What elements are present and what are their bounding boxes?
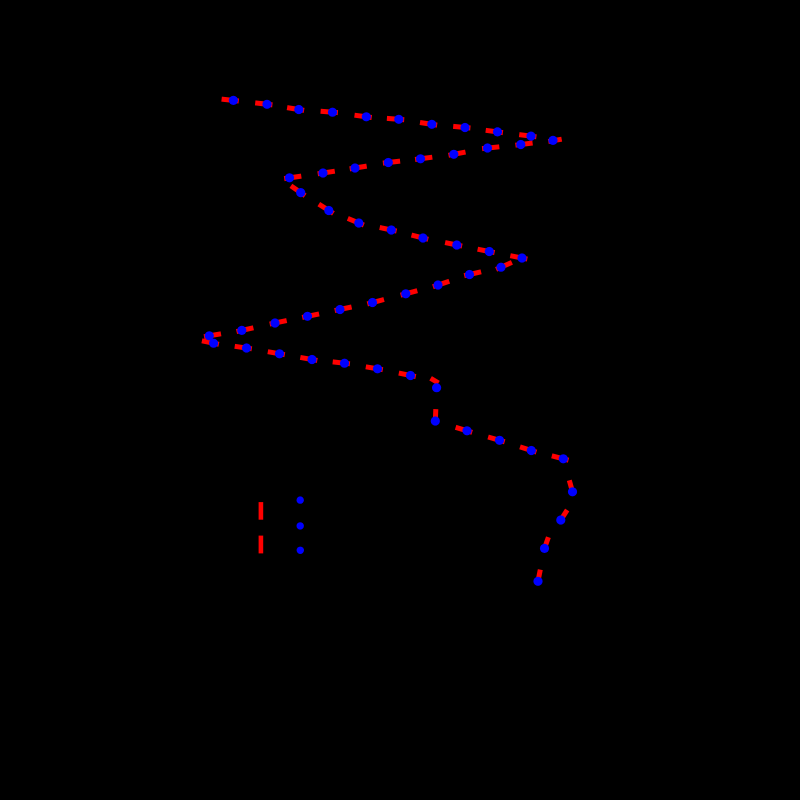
legend blue marker 1 bbox=[297, 496, 304, 503]
trajectory point 51 blue marker bbox=[568, 487, 577, 496]
trajectory point 37 blue marker bbox=[205, 331, 214, 340]
trajectory point 53 blue marker bbox=[540, 544, 549, 553]
trajectory point 35 red dash tail bbox=[270, 321, 287, 325]
trajectory point 16 blue marker bbox=[384, 158, 393, 167]
trajectory point 15 blue marker bbox=[416, 154, 425, 163]
trajectory point 9 blue marker bbox=[493, 127, 502, 136]
trajectory point 27 red dash tail bbox=[510, 256, 527, 259]
trajectory point 22 blue marker bbox=[354, 218, 363, 227]
trajectory point 14 blue marker bbox=[449, 150, 458, 159]
trajectory point 45 red dash tail bbox=[431, 378, 439, 383]
trajectory point 29 red dash tail bbox=[464, 272, 481, 276]
trajectory point 23 red dash tail bbox=[380, 228, 397, 232]
legend blue marker 3 bbox=[297, 547, 304, 554]
trajectory point 7 red dash tail bbox=[420, 123, 437, 126]
trajectory point 12 red dash tail bbox=[515, 143, 532, 145]
trajectory point 28 blue marker bbox=[496, 263, 505, 272]
trajectory point 21 blue marker bbox=[324, 206, 333, 215]
trajectory point 36 red dash tail bbox=[237, 328, 254, 332]
trajectory point 45 blue marker bbox=[432, 383, 441, 392]
trajectory point 44 red dash tail bbox=[399, 373, 416, 377]
trajectory point 52 red dash tail bbox=[559, 510, 567, 523]
trajectory point 6 red dash tail bbox=[387, 118, 404, 119]
trajectory point 1 red dash tail bbox=[222, 99, 239, 101]
trajectory point 54 blue marker bbox=[533, 577, 542, 586]
trajectory point 18 red dash tail bbox=[318, 171, 335, 174]
trajectory point 34 red dash tail bbox=[302, 314, 319, 318]
trajectory point 3 red dash tail bbox=[287, 108, 304, 111]
trajectory point 42 red dash tail bbox=[333, 362, 350, 364]
trajectory point 18 blue marker bbox=[318, 168, 327, 177]
legend red dashed line sample: dash 2 bbox=[259, 536, 264, 554]
trajectory point 22 red dash tail bbox=[348, 218, 364, 225]
trajectory point 12 blue marker bbox=[516, 140, 525, 149]
trajectory point 17 blue marker bbox=[350, 163, 359, 172]
trajectory point 13 red dash tail bbox=[482, 147, 499, 149]
trajectory point 33 blue marker bbox=[335, 305, 344, 314]
trajectory point 36 blue marker bbox=[237, 326, 246, 335]
trajectory point 39 blue marker bbox=[242, 343, 251, 352]
trajectory point 11 blue marker bbox=[548, 136, 557, 145]
trajectory point 4 blue marker bbox=[328, 108, 337, 117]
trajectory point 46 blue marker bbox=[431, 416, 440, 425]
trajectory point 48 blue marker bbox=[495, 436, 504, 445]
trajectory point 11 red dash tail bbox=[548, 139, 561, 141]
trajectory point 38 blue marker bbox=[209, 339, 218, 348]
trajectory point 52 blue marker bbox=[556, 515, 565, 524]
trajectory point 29 blue marker bbox=[465, 270, 474, 279]
trajectory point 30 red dash tail bbox=[433, 281, 449, 287]
trajectory point 24 red dash tail bbox=[412, 235, 429, 239]
legend blue marker 2 bbox=[297, 522, 304, 529]
trajectory point 42 blue marker bbox=[340, 359, 349, 368]
trajectory point 25 red dash tail bbox=[445, 243, 462, 247]
trajectory point 14 red dash tail bbox=[449, 152, 466, 155]
trajectory point 16 red dash tail bbox=[383, 161, 400, 163]
trajectory point 43 red dash tail bbox=[366, 367, 383, 370]
trajectory point 48 red dash tail bbox=[488, 437, 505, 442]
trajectory point 54 red dash tail bbox=[537, 570, 540, 585]
trajectory point 53 red dash tail bbox=[544, 537, 549, 551]
trajectory point 20 red dash tail bbox=[291, 186, 305, 196]
trajectory point 8 red dash tail bbox=[453, 126, 470, 128]
trajectory point 44 blue marker bbox=[406, 371, 415, 380]
trajectory point 10 blue marker bbox=[526, 132, 535, 141]
trajectory point 8 blue marker bbox=[460, 123, 469, 132]
trajectory point 19 blue marker bbox=[285, 173, 294, 182]
trajectory point 35 blue marker bbox=[270, 318, 279, 327]
legend red dashed line sample: dash 1 bbox=[259, 502, 264, 520]
trajectory point 37 red dash tail bbox=[204, 334, 221, 337]
trajectory point 34 blue marker bbox=[303, 312, 312, 321]
trajectory point 19 red dash tail bbox=[284, 176, 301, 179]
trajectory point 31 blue marker bbox=[401, 289, 410, 298]
trajectory point 50 red dash tail bbox=[552, 456, 569, 460]
trajectory point 7 blue marker bbox=[427, 120, 436, 129]
trajectory point 46 red dash tail bbox=[433, 409, 439, 424]
trajectory point 33 red dash tail bbox=[335, 307, 352, 311]
trajectory point 40 red dash tail bbox=[268, 352, 285, 355]
trajectory point 26 red dash tail bbox=[478, 249, 495, 252]
trajectory point 15 red dash tail bbox=[415, 157, 432, 159]
trajectory point 5 blue marker bbox=[362, 112, 371, 121]
trajectory point 39 red dash tail bbox=[235, 346, 252, 349]
trajectory point 17 red dash tail bbox=[350, 166, 367, 169]
trajectory point 50 blue marker bbox=[559, 454, 568, 463]
trajectory point 3 blue marker bbox=[294, 105, 303, 114]
trajectory point 47 red dash tail bbox=[456, 427, 473, 432]
trajectory point 28 red dash tail bbox=[496, 262, 512, 269]
trajectory point 38 red dash tail bbox=[202, 341, 219, 345]
trajectory point 10 red dash tail bbox=[519, 135, 536, 137]
trajectory point 43 blue marker bbox=[373, 364, 382, 373]
trajectory point 13 blue marker bbox=[483, 143, 492, 152]
trajectory point 2 blue marker bbox=[262, 100, 271, 109]
trajectory point 30 blue marker bbox=[433, 280, 442, 289]
trajectory point 32 red dash tail bbox=[367, 300, 384, 304]
trajectory point 27 blue marker bbox=[517, 253, 526, 262]
trajectory point 49 red dash tail bbox=[520, 447, 536, 452]
trajectory point 24 blue marker bbox=[418, 233, 427, 242]
trajectory point 2 red dash tail bbox=[255, 103, 272, 105]
trajectory point 5 red dash tail bbox=[355, 115, 372, 117]
trajectory point 25 blue marker bbox=[452, 240, 461, 249]
trajectory point 51 red dash tail bbox=[569, 480, 573, 494]
trajectory point 41 blue marker bbox=[307, 355, 316, 364]
trajectory point 49 blue marker bbox=[527, 446, 536, 455]
trajectory point 40 blue marker bbox=[275, 349, 284, 358]
trajectory point 9 red dash tail bbox=[486, 130, 503, 132]
trajectory point 32 blue marker bbox=[368, 298, 377, 307]
trajectory point 1 blue marker bbox=[229, 96, 238, 105]
trajectory point 21 red dash tail bbox=[319, 204, 334, 213]
trajectory point 6 blue marker bbox=[394, 115, 403, 124]
trajectory point 4 red dash tail bbox=[321, 111, 338, 112]
trajectory point 23 blue marker bbox=[387, 225, 396, 234]
trajectory point 31 red dash tail bbox=[401, 291, 418, 296]
trajectory point 26 blue marker bbox=[485, 247, 494, 256]
trajectory point 20 blue marker bbox=[296, 188, 305, 197]
trajectory point 47 blue marker bbox=[462, 426, 471, 435]
trajectory point 41 red dash tail bbox=[300, 357, 317, 360]
